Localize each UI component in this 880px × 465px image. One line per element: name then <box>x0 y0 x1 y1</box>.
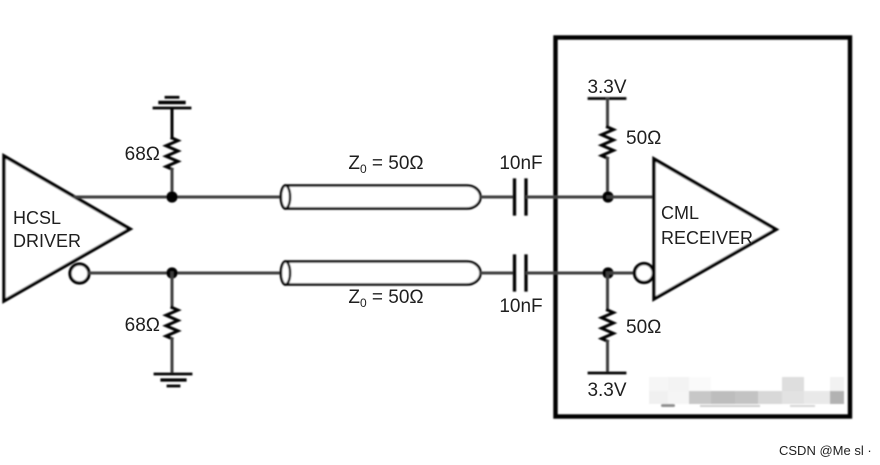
resistor R4 50 ohm <box>606 273 609 310</box>
wire: driver top output to junction A <box>75 196 172 199</box>
CML receiver enclosure box <box>556 38 851 417</box>
svg-text:3.3V: 3.3V <box>587 380 626 401</box>
wire: bubble to junction B <box>89 272 172 275</box>
capacitor C2 10nF <box>515 256 527 290</box>
ground (bottom left) <box>155 374 191 386</box>
capacitor C1 10nF <box>515 180 527 214</box>
svg-text:Z0 = 50Ω: Z0 = 50Ω <box>348 287 423 310</box>
svg-text:68Ω: 68Ω <box>125 315 160 336</box>
junction node A <box>166 191 177 202</box>
transmission line T1 Z0=50ohm (top) <box>281 186 481 209</box>
svg-text:50Ω: 50Ω <box>626 317 661 338</box>
wire: junction D to inverting bubble <box>608 272 635 275</box>
wire: junction A to top transmission line <box>172 196 283 199</box>
svg-text:HCSL: HCSL <box>13 208 61 228</box>
junction node D <box>602 267 613 278</box>
svg-text:CML: CML <box>661 203 699 223</box>
CML receiver U2 <box>654 159 776 299</box>
svg-text:CSDN @Me sl ·: CSDN @Me sl · <box>779 443 872 458</box>
ground (top left, inverted) <box>154 97 190 138</box>
wire: C1 to junction C <box>528 196 609 199</box>
resistor R3 50 ohm <box>602 127 614 158</box>
svg-text:Z0 = 50Ω: Z0 = 50Ω <box>348 153 423 176</box>
svg-text:10nF: 10nF <box>499 296 542 317</box>
3.3V supply rail (top) <box>589 97 625 100</box>
resistor R2 68 ohm <box>171 273 174 308</box>
blurred watermark mosaic <box>649 377 844 407</box>
svg-text:3.3V: 3.3V <box>587 77 626 98</box>
wire: junction C to receiver <box>608 196 654 199</box>
3.3V supply rail (bottom) <box>589 372 625 375</box>
wire: T2 to capacitor C2 <box>481 272 514 275</box>
junction node B <box>166 267 177 278</box>
junction node C <box>602 191 613 202</box>
svg-text:68Ω: 68Ω <box>125 144 160 165</box>
inverting output bubble <box>70 264 89 283</box>
svg-text:RECEIVER: RECEIVER <box>661 228 753 248</box>
inverting input bubble <box>635 264 654 283</box>
resistor R1 68 ohm <box>166 138 178 169</box>
wire: junction B to bottom transmission line <box>172 272 283 275</box>
svg-text:50Ω: 50Ω <box>626 128 661 149</box>
HCSL driver U1 <box>4 156 130 301</box>
svg-text:DRIVER: DRIVER <box>13 231 81 251</box>
transmission line T2 Z0=50ohm (bottom) <box>281 262 481 285</box>
wire: T1 to capacitor C1 <box>481 196 514 199</box>
svg-text:10nF: 10nF <box>499 153 542 174</box>
wire: C2 to junction D <box>528 272 609 275</box>
